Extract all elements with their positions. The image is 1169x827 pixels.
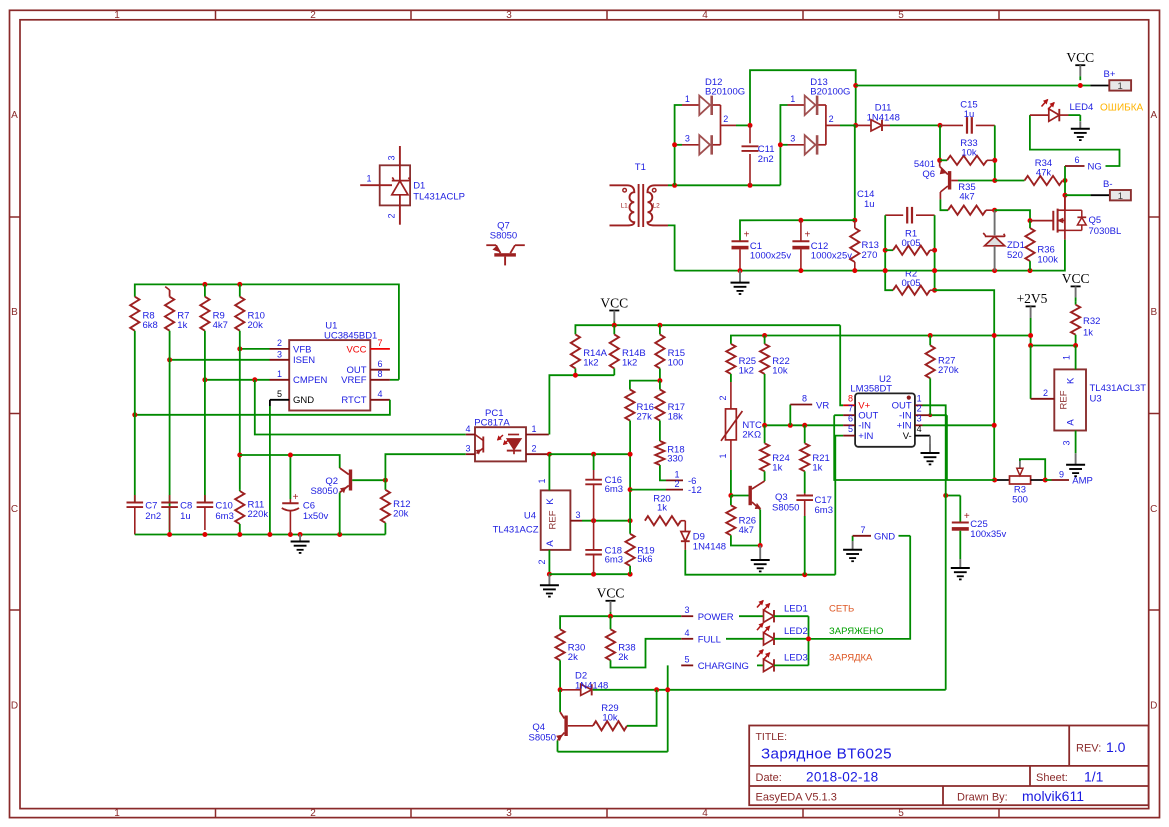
wire bottom ground bus left (135, 532, 386, 537)
svg-text:4k7: 4k7 (213, 320, 228, 331)
resistor R33 (937, 138, 995, 165)
wire R35 to gate node (995, 210, 1033, 223)
svg-text:1k: 1k (1083, 328, 1093, 339)
capacitor C8 (161, 495, 192, 530)
svg-text:1k2: 1k2 (739, 366, 754, 377)
title block (749, 726, 1148, 806)
svg-text:4: 4 (702, 808, 708, 819)
pin 8 VREF of U1 (370, 369, 399, 380)
wire VCC B+ rail (856, 83, 1091, 88)
wire R1 R2 right rail (932, 215, 937, 293)
resistor R15 (655, 325, 685, 380)
wire NTC to Q3 base node (728, 470, 733, 498)
ground at U2 V- (921, 444, 940, 464)
resistor R10 (235, 284, 265, 331)
port AMP pin 9 (1045, 469, 1093, 486)
svg-text:+: + (293, 492, 299, 503)
wire T1 secondary top line (668, 183, 780, 188)
capacitor C14 (857, 189, 935, 224)
svg-text:A: A (1066, 419, 1077, 426)
pin 7 VCC of U1 (370, 338, 390, 349)
svg-text:6: 6 (848, 414, 853, 424)
pin 3 ISEN of U1 (167, 349, 289, 362)
resistor R26 4k7 (726, 496, 760, 546)
svg-text:2: 2 (532, 444, 537, 454)
svg-text:4: 4 (465, 424, 470, 434)
svg-text:L2: L2 (653, 203, 661, 210)
svg-text:2: 2 (674, 479, 679, 489)
port VR pin 8 (790, 394, 829, 426)
svg-text:4k7: 4k7 (959, 192, 974, 203)
node Q3 emitter ground (758, 543, 763, 548)
resistor R11 (235, 490, 268, 535)
power flag VCC at B+ (1066, 50, 1094, 80)
capacitor C1 1000x25v (732, 230, 792, 271)
svg-text:+: + (804, 230, 810, 241)
svg-text:1: 1 (718, 453, 728, 458)
svg-text:3: 3 (506, 808, 512, 819)
mosfet Q5 7030BL (1030, 195, 1121, 239)
svg-text:+: + (744, 230, 750, 241)
resistor R8 (130, 297, 158, 331)
svg-text:Drawn By:: Drawn By: (957, 792, 1008, 804)
svg-text:-12: -12 (688, 485, 702, 496)
resistor R12 (381, 480, 411, 534)
transistor Q2 S8050 (311, 465, 386, 535)
potentiometer R3 500 (992, 459, 1048, 505)
pin 6 OUT of U1 (370, 359, 390, 370)
svg-text:1u: 1u (964, 109, 975, 120)
diode D9 1N4148 (681, 521, 726, 553)
svg-text:2: 2 (1043, 388, 1048, 398)
svg-text:270k: 270k (938, 365, 959, 376)
resistor R35 (940, 182, 997, 215)
node on U1 top bus at R9 (202, 282, 207, 287)
label OSHIBKA (1100, 102, 1144, 113)
wire R9 column down (204, 331, 206, 503)
node Q2 base R12 (383, 478, 388, 483)
svg-text:5k6: 5k6 (637, 554, 652, 565)
pin 2 REF of U3 (1031, 346, 1055, 399)
svg-text:UC3845BD1: UC3845BD1 (324, 331, 377, 342)
wire U3 K row (1028, 343, 1078, 348)
ground at LED4 (1071, 121, 1090, 140)
label ZARYAZHENO charged (829, 626, 883, 637)
svg-text:СЕТЬ: СЕТЬ (829, 603, 854, 614)
diode D13 B20100G (778, 77, 856, 185)
power flag +2V5 (1017, 291, 1048, 335)
node R10 column at collector line (237, 453, 242, 458)
wire R2 output to sense column (935, 290, 995, 480)
svg-text:+: + (964, 511, 970, 522)
svg-text:2: 2 (718, 395, 728, 400)
svg-text:K: K (545, 498, 556, 505)
capacitor C16 (585, 454, 623, 521)
svg-text:1k: 1k (772, 463, 782, 474)
node on U1 top bus at R10 (237, 282, 242, 287)
svg-text:2018-02-18: 2018-02-18 (806, 769, 879, 784)
wire R10 column down (239, 331, 241, 490)
connector B- pin 1 (1063, 179, 1131, 202)
port NG pin 6 (1030, 115, 1120, 180)
capacitor C25 100x35v (943, 493, 1006, 559)
svg-text:3: 3 (684, 605, 689, 615)
svg-text:Sheet:: Sheet: (1036, 772, 1068, 784)
pin 1 OUT of U2 (915, 394, 946, 690)
wire RTCT to R8 column (132, 400, 390, 418)
pin 2 of PC1 (526, 444, 552, 457)
svg-text:100x35v: 100x35v (970, 529, 1006, 540)
capacitor C18 (585, 521, 623, 575)
op-amp U2 LM358DT (850, 374, 914, 447)
svg-text:T1: T1 (635, 162, 646, 173)
power flag VCC bottom (597, 586, 625, 616)
svg-text:5: 5 (277, 389, 282, 399)
svg-text:1.0: 1.0 (1106, 739, 1126, 755)
svg-text:1k: 1k (657, 503, 667, 514)
capacitor C6 (282, 455, 329, 535)
svg-text:4: 4 (378, 389, 383, 399)
svg-text:330: 330 (667, 454, 683, 465)
svg-text:1k: 1k (812, 463, 822, 474)
wire PC1 pin2 to C16 and R16 column (549, 452, 630, 457)
port POWER pin 3 (681, 605, 763, 623)
svg-text:6k8: 6k8 (143, 320, 158, 331)
svg-text:220k: 220k (248, 509, 269, 520)
svg-text:LED2: LED2 (784, 626, 808, 637)
led LED3 (757, 650, 809, 672)
svg-text:VFB: VFB (293, 344, 311, 355)
wire U1 top bus (135, 284, 399, 379)
svg-text:47k: 47k (1036, 168, 1052, 179)
resistor R25 1k2 (726, 344, 756, 382)
svg-text:GND: GND (293, 395, 314, 406)
svg-text:20k: 20k (393, 509, 409, 520)
ground at C1 (731, 271, 750, 294)
svg-text:B: B (11, 307, 18, 318)
svg-text:1k2: 1k2 (583, 358, 598, 369)
pin 3 REF of U4 (570, 510, 632, 523)
port -6 pin 1 (660, 465, 697, 487)
svg-text:0r05: 0r05 (902, 278, 921, 289)
ground at U4 pin2 (540, 574, 559, 596)
svg-text:1: 1 (532, 424, 537, 434)
svg-text:3: 3 (685, 134, 690, 144)
wire minus-IN row (762, 423, 843, 428)
svg-text:S8050: S8050 (490, 231, 517, 242)
ground at GND port (843, 550, 862, 561)
wire CMPEN to PC1 pin4 (255, 380, 466, 435)
svg-text:ISEN: ISEN (293, 355, 315, 366)
wire Q5 drain to B- (1064, 195, 1066, 210)
svg-text:8: 8 (378, 369, 383, 379)
svg-text:3: 3 (506, 10, 512, 21)
svg-text:3: 3 (790, 134, 795, 144)
resistor R38 2k (606, 616, 636, 663)
svg-text:2k: 2k (568, 652, 578, 663)
svg-text:A: A (545, 540, 556, 547)
svg-text:C: C (11, 504, 18, 515)
power flag VCC mid (600, 295, 628, 325)
svg-text:Зарядное BT6025: Зарядное BT6025 (761, 746, 892, 763)
svg-text:3: 3 (1062, 440, 1072, 445)
svg-text:6: 6 (378, 359, 383, 369)
pin 4 of PC1 (465, 424, 475, 435)
node C17 on plus-IN bus (802, 572, 807, 577)
svg-text:VREF: VREF (341, 375, 367, 386)
svg-text:8: 8 (802, 394, 807, 404)
svg-text:270: 270 (862, 250, 878, 261)
wire GND port to LED cathodes (809, 536, 911, 639)
svg-text:D1: D1 (413, 181, 425, 192)
zener diode ZD1 520 (983, 210, 1025, 270)
svg-text:1u: 1u (864, 199, 875, 210)
wire R7 column down (169, 331, 171, 535)
led LED1 (757, 601, 809, 623)
svg-text:4k7: 4k7 (739, 525, 754, 536)
port CHARGING pin 5 (681, 654, 763, 672)
resistor R21 1k (800, 425, 830, 493)
svg-text:8: 8 (848, 394, 853, 404)
svg-text:REF: REF (548, 510, 559, 529)
resistor R18 (655, 421, 684, 466)
pin 4 V- of U2 (915, 424, 930, 444)
diode D11 1N4148 (856, 103, 943, 132)
resistor R9 (200, 284, 228, 331)
pin 1 K of U3 (1062, 346, 1076, 370)
wire +2V5 bus (731, 333, 1033, 346)
svg-text:TL431ACZ: TL431ACZ (493, 525, 539, 536)
svg-text:1: 1 (917, 394, 922, 404)
svg-text:7: 7 (378, 338, 383, 348)
capacitor C7 (127, 495, 162, 535)
wire R12 to PC1 pin3 (385, 454, 465, 480)
pin 5 GND of U1 (270, 389, 289, 534)
svg-text:1k2: 1k2 (622, 358, 637, 369)
svg-text:U4: U4 (524, 511, 536, 522)
svg-text:7: 7 (860, 525, 865, 535)
svg-text:18k: 18k (668, 412, 684, 423)
svg-text:VCC: VCC (1066, 50, 1094, 65)
ground at Q3 emitter (751, 546, 770, 572)
transistor Q7 S8050 (486, 221, 525, 266)
svg-text:6m3: 6m3 (815, 505, 833, 516)
svg-text:100k: 100k (1037, 254, 1058, 265)
resistor R30 2k (556, 629, 586, 690)
svg-text:B: B (1150, 307, 1157, 318)
wire LED cathode bus (806, 616, 811, 665)
svg-text:FULL: FULL (698, 634, 721, 645)
wire main ground bus (675, 240, 1065, 274)
power flag VCC above R32 (1062, 271, 1090, 301)
svg-text:REF: REF (1059, 390, 1070, 409)
svg-text:1x50v: 1x50v (303, 511, 329, 522)
svg-text:POWER: POWER (698, 612, 734, 623)
svg-text:ЗАРЯДКА: ЗАРЯДКА (829, 653, 873, 664)
svg-text:20k: 20k (248, 320, 264, 331)
svg-text:REV:: REV: (1076, 743, 1101, 755)
capacitor C11 (742, 125, 775, 185)
svg-text:VR: VR (816, 400, 829, 411)
svg-text:2: 2 (917, 404, 922, 414)
wire D9 to plus-IN bus (685, 550, 835, 575)
ground at U3 (1066, 453, 1085, 476)
svg-text:3: 3 (277, 349, 282, 359)
svg-text:1: 1 (685, 94, 690, 104)
wire R1 R2 left rail (883, 215, 893, 290)
pin 2 VFB of U1 (237, 338, 289, 351)
svg-text:Q4: Q4 (532, 722, 545, 733)
svg-text:2KΩ: 2KΩ (742, 430, 761, 441)
resistor R17 (655, 381, 685, 423)
resistor R16 (625, 390, 654, 423)
resistor R1 0r05 (885, 229, 934, 255)
svg-text:CHARGING: CHARGING (698, 661, 749, 672)
svg-text:L1: L1 (621, 203, 629, 210)
svg-text:2: 2 (537, 559, 547, 564)
capacitor C12 1000x25v (792, 220, 852, 270)
svg-text:EasyEDA V5.1.3: EasyEDA V5.1.3 (756, 792, 837, 804)
svg-text:Date:: Date: (756, 772, 782, 784)
svg-text:TL431ACLP: TL431ACLP (413, 192, 465, 203)
svg-text:1: 1 (277, 369, 282, 379)
led LED2 (757, 623, 809, 645)
svg-text:D: D (11, 701, 18, 712)
pin 2 -IN of U2 (915, 404, 947, 480)
svg-text:1: 1 (1118, 191, 1123, 202)
svg-text:+2V5: +2V5 (1017, 291, 1048, 306)
svg-text:2: 2 (310, 808, 316, 819)
svg-text:CMPEN: CMPEN (293, 375, 327, 386)
svg-text:ОШИБКА: ОШИБКА (1100, 102, 1144, 113)
pin 1 K of U4 (537, 454, 549, 490)
svg-text:R32: R32 (1083, 316, 1100, 327)
node CHARGING crossing (665, 687, 670, 692)
svg-text:1: 1 (790, 94, 795, 104)
svg-text:B-: B- (1103, 179, 1113, 190)
svg-text:VCC: VCC (1062, 271, 1090, 286)
svg-text:AMP: AMP (1072, 476, 1093, 487)
svg-text:2n2: 2n2 (758, 154, 774, 165)
svg-text:4: 4 (917, 424, 922, 434)
led LED4 (1030, 100, 1093, 122)
resistor R14B (610, 325, 646, 375)
svg-text:S8050: S8050 (529, 733, 556, 744)
resistor R7 (165, 287, 189, 331)
svg-text:VCC: VCC (597, 586, 625, 601)
svg-text:U3: U3 (1090, 394, 1102, 405)
connector B+ pin 1 (1090, 69, 1131, 92)
component D1 TL431ACLP (360, 146, 465, 225)
svg-text:1: 1 (1118, 81, 1123, 92)
resistor R14A (571, 334, 608, 375)
svg-text:0r05: 0r05 (902, 238, 921, 249)
svg-text:520: 520 (1007, 250, 1023, 261)
port GND pin 7 (853, 525, 911, 550)
pin 3 +IN of U2 (915, 414, 997, 428)
svg-text:1u: 1u (180, 511, 191, 522)
svg-text:7: 7 (848, 404, 853, 414)
wire Q2 collector line (240, 453, 340, 466)
svg-text:5: 5 (898, 10, 904, 21)
wire VCC bus mid (575, 323, 840, 335)
svg-text:VCC: VCC (346, 344, 366, 355)
svg-text:RTCT: RTCT (341, 395, 366, 406)
resistor R36 100k (1025, 221, 1058, 271)
svg-text:7030BL: 7030BL (1089, 226, 1122, 237)
svg-text:PC817A: PC817A (474, 418, 510, 429)
svg-text:LM358DT: LM358DT (850, 384, 892, 395)
svg-text:1/1: 1/1 (1084, 768, 1104, 784)
svg-text:4: 4 (684, 628, 689, 638)
svg-text:1: 1 (366, 174, 371, 184)
svg-text:2: 2 (723, 114, 728, 124)
wire R16 column (628, 421, 633, 521)
pin 3 A of U3 (1062, 431, 1076, 454)
pin 2 A of U4 (537, 550, 552, 577)
svg-text:Q3: Q3 (775, 492, 788, 503)
pin 8 V+ of U2 (840, 325, 855, 405)
svg-text:V-: V- (903, 431, 912, 442)
svg-text:6m3: 6m3 (215, 511, 233, 522)
svg-text:VCC: VCC (600, 295, 628, 310)
svg-text:1000x25v: 1000x25v (750, 251, 791, 262)
wire D2 to op-amp output long line (593, 687, 946, 692)
svg-text:1: 1 (114, 808, 120, 819)
svg-text:2: 2 (310, 10, 316, 21)
svg-text:S8050: S8050 (772, 503, 799, 514)
pin 1 of PC1 (526, 424, 549, 435)
svg-text:molvik611: molvik611 (1022, 788, 1084, 804)
svg-text:C: C (1150, 504, 1157, 515)
svg-text:2n2: 2n2 (145, 511, 161, 522)
svg-text:6m3: 6m3 (605, 484, 623, 495)
svg-text:27k: 27k (637, 412, 653, 423)
transistor Q3 S8050 (731, 481, 800, 546)
wire U4 bottom bus (549, 572, 632, 577)
wire C15 right down (992, 125, 997, 180)
svg-text:A: A (1150, 110, 1157, 121)
capacitor C10 (197, 495, 234, 530)
resistor R13 (850, 125, 879, 270)
svg-text:2k: 2k (618, 652, 628, 663)
transistor Q4 S8050 (529, 690, 593, 752)
svg-text:3: 3 (917, 414, 922, 424)
shunt regulator U4 TL431ACZ (493, 490, 571, 550)
svg-text:TL431ACL3T: TL431ACL3T (1090, 383, 1147, 394)
resistor R2 0r05 (893, 269, 935, 295)
capacitor C15 (940, 100, 995, 134)
pin 3 of PC1 (465, 444, 475, 455)
svg-text:6: 6 (1074, 155, 1079, 165)
resistor R32 1k (1071, 301, 1100, 345)
svg-text:D: D (1150, 701, 1157, 712)
wire Q4 emitter bottom (558, 751, 668, 753)
label ZARYADKA charging (829, 653, 873, 664)
resistor R22 10k (760, 336, 790, 426)
wire R38 to FULL (611, 639, 682, 668)
svg-text:Q5: Q5 (1089, 215, 1102, 226)
svg-text:10k: 10k (772, 366, 788, 377)
svg-text:Q6: Q6 (922, 169, 935, 180)
wire D12 output up and over (748, 70, 859, 128)
pin 1 CMPEN of U1 (202, 369, 289, 382)
svg-text:2: 2 (829, 114, 834, 124)
resistor R24 1k (760, 425, 790, 481)
wire VCC bus bottom (560, 614, 681, 630)
svg-text:TITLE:: TITLE: (756, 731, 788, 743)
resistor R29 10k (593, 690, 657, 731)
